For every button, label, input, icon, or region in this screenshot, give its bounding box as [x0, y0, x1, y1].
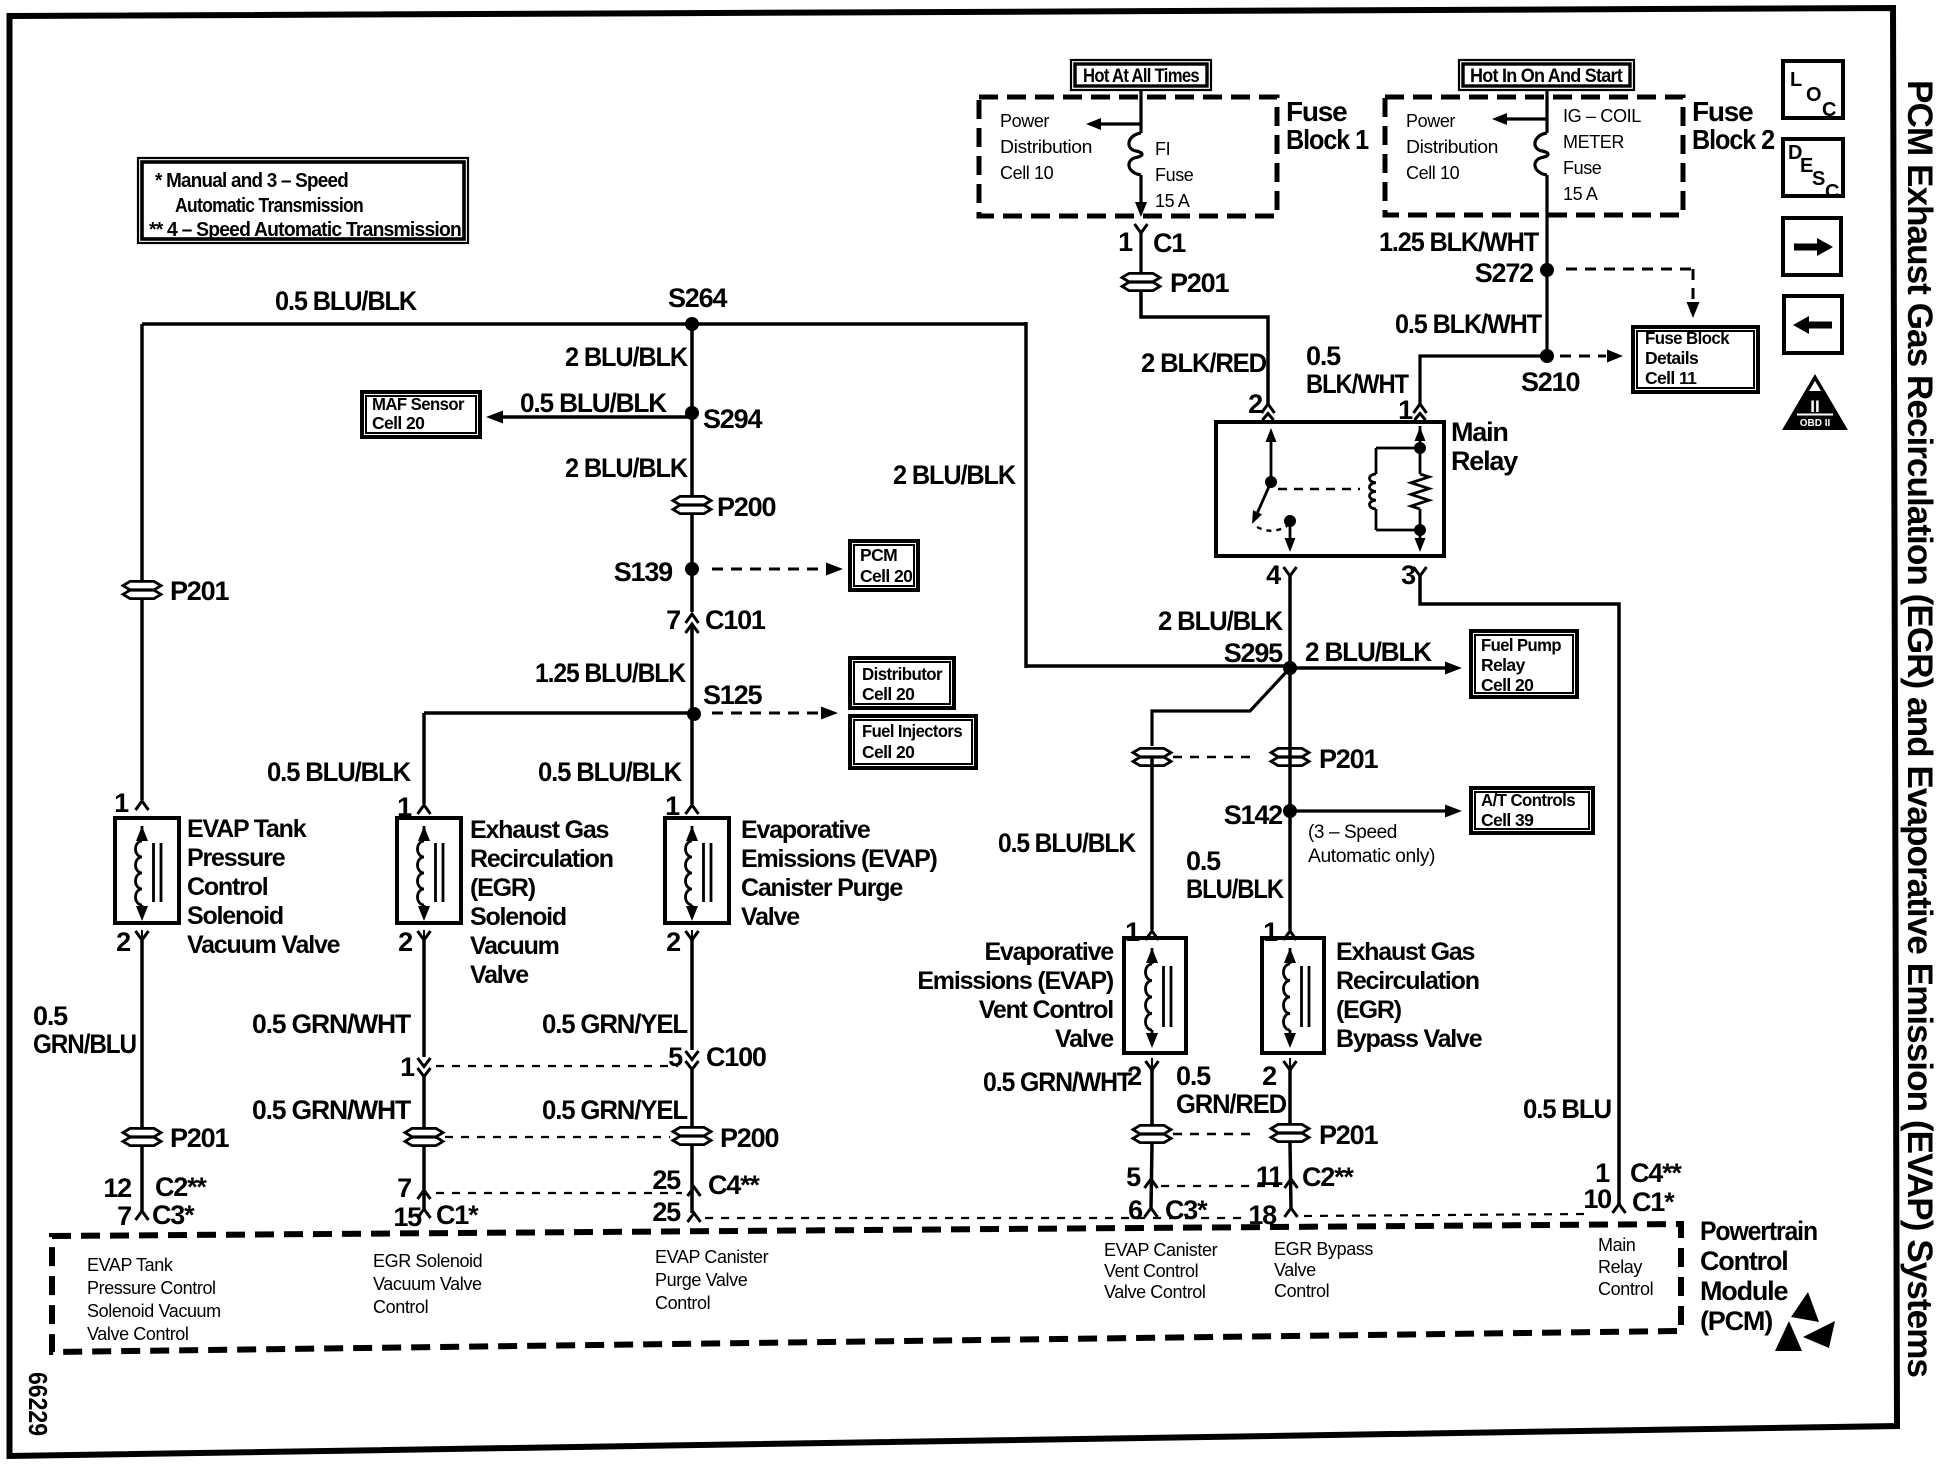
svg-text:Control: Control [1598, 1279, 1653, 1299]
svg-text:0.5 BLK/WHT: 0.5 BLK/WHT [1395, 309, 1543, 339]
svg-text:0.5 GRN/YEL: 0.5 GRN/YEL [542, 1095, 688, 1125]
svg-text:S: S [1812, 168, 1825, 190]
svg-text:BLK/WHT: BLK/WHT [1306, 369, 1409, 399]
svg-text:0.5 BLU/BLK: 0.5 BLU/BLK [538, 757, 683, 787]
svg-text:EVAP Tank: EVAP Tank [187, 815, 307, 843]
svg-text:2 BLK/RED: 2 BLK/RED [1141, 348, 1267, 378]
svg-text:66229: 66229 [23, 1372, 53, 1436]
svg-text:IG – COIL: IG – COIL [1563, 106, 1641, 126]
svg-text:Emissions (EVAP): Emissions (EVAP) [741, 845, 938, 873]
svg-text:Automatic Transmission: Automatic Transmission [175, 195, 363, 217]
svg-text:Canister Purge: Canister Purge [741, 874, 903, 902]
svg-text:2 BLU/BLK: 2 BLU/BLK [565, 342, 689, 372]
svg-text:0.5 GRN/WHT: 0.5 GRN/WHT [983, 1067, 1133, 1097]
svg-text:(EGR): (EGR) [1336, 996, 1402, 1024]
svg-text:Block 2: Block 2 [1692, 124, 1775, 155]
svg-text:Pressure: Pressure [187, 844, 286, 872]
svg-text:1.25 BLK/WHT: 1.25 BLK/WHT [1379, 227, 1540, 257]
svg-text:P201: P201 [1319, 1120, 1378, 1150]
svg-text:A/T Controls: A/T Controls [1481, 790, 1576, 810]
svg-text:Distributor: Distributor [862, 664, 943, 684]
svg-text:S294: S294 [703, 404, 762, 434]
svg-text:1.25 BLU/BLK: 1.25 BLU/BLK [535, 658, 687, 688]
svg-text:Power: Power [1000, 111, 1049, 131]
svg-text:Automatic only): Automatic only) [1308, 846, 1435, 867]
svg-text:Block 1: Block 1 [1286, 124, 1369, 155]
svg-text:Control: Control [1274, 1281, 1329, 1301]
svg-text:7: 7 [666, 605, 680, 635]
svg-text:OBD II: OBD II [1800, 418, 1831, 429]
svg-text:Control: Control [655, 1293, 710, 1313]
svg-text:15 A: 15 A [1155, 191, 1190, 211]
svg-text:EVAP Canister: EVAP Canister [1104, 1240, 1218, 1260]
svg-text:4: 4 [1266, 560, 1281, 590]
svg-text:C4**: C4** [1630, 1158, 1682, 1188]
svg-text:Cell 20: Cell 20 [372, 413, 425, 433]
svg-text:MAF Sensor: MAF Sensor [372, 394, 465, 414]
svg-text:P201: P201 [1170, 268, 1229, 298]
svg-text:Fuel Pump: Fuel Pump [1481, 635, 1561, 655]
svg-text:0.5 BLU/BLK: 0.5 BLU/BLK [275, 286, 418, 316]
svg-text:0.5 BLU: 0.5 BLU [1523, 1094, 1611, 1124]
svg-text:Fuse: Fuse [1155, 165, 1194, 185]
svg-text:S125: S125 [703, 680, 762, 710]
svg-text:2 BLU/BLK: 2 BLU/BLK [1158, 606, 1284, 636]
svg-text:Details: Details [1645, 348, 1699, 368]
svg-text:1: 1 [1263, 917, 1278, 947]
svg-text:S142: S142 [1224, 800, 1282, 830]
svg-text:2: 2 [666, 927, 680, 957]
svg-text:GRN/BLU: GRN/BLU [33, 1029, 136, 1059]
svg-text:Cell 20: Cell 20 [1481, 675, 1534, 695]
svg-text:FI: FI [1155, 139, 1170, 159]
svg-text:EGR Solenoid: EGR Solenoid [373, 1251, 482, 1271]
svg-text:(EGR): (EGR) [470, 874, 536, 902]
svg-text:Pressure Control: Pressure Control [87, 1278, 216, 1298]
svg-text:2 BLU/BLK: 2 BLU/BLK [893, 460, 1017, 490]
svg-text:Main: Main [1598, 1235, 1635, 1255]
svg-text:C3*: C3* [152, 1200, 195, 1230]
svg-text:0.5 GRN/WHT: 0.5 GRN/WHT [252, 1009, 412, 1039]
svg-text:C4**: C4** [708, 1170, 760, 1200]
svg-text:Distribution: Distribution [1000, 137, 1092, 157]
svg-text:Cell 10: Cell 10 [1406, 163, 1460, 183]
svg-text:0.5: 0.5 [33, 1001, 68, 1031]
svg-text:Emissions (EVAP): Emissions (EVAP) [917, 967, 1114, 995]
svg-text:1: 1 [114, 788, 129, 818]
svg-text:O: O [1806, 84, 1821, 106]
svg-text:C101: C101 [705, 605, 766, 635]
svg-text:EGR Bypass: EGR Bypass [1274, 1239, 1373, 1259]
svg-text:Fuel Injectors: Fuel Injectors [862, 721, 963, 741]
svg-text:C2**: C2** [155, 1172, 207, 1202]
svg-text:Cell 20: Cell 20 [862, 684, 915, 704]
svg-text:Solenoid: Solenoid [470, 903, 566, 931]
svg-text:Vacuum: Vacuum [470, 932, 559, 960]
svg-text:P200: P200 [717, 492, 775, 522]
svg-text:C: C [1825, 181, 1839, 203]
svg-text:Valve: Valve [1055, 1025, 1114, 1053]
svg-text:7: 7 [397, 1173, 411, 1203]
svg-text:S139: S139 [614, 557, 673, 587]
svg-text:Exhaust Gas: Exhaust Gas [1336, 938, 1475, 966]
svg-text:S295: S295 [1224, 638, 1283, 668]
svg-text:Vent Control: Vent Control [979, 996, 1113, 1024]
svg-text:3: 3 [1401, 560, 1416, 590]
svg-text:Control: Control [187, 873, 268, 901]
svg-text:(3 – Speed: (3 – Speed [1308, 822, 1397, 843]
svg-text:2 BLU/BLK: 2 BLU/BLK [1305, 637, 1433, 667]
svg-text:5: 5 [1126, 1162, 1141, 1192]
svg-text:Relay: Relay [1481, 655, 1526, 675]
svg-text:Fuse: Fuse [1692, 96, 1753, 127]
svg-text:EVAP Tank: EVAP Tank [87, 1255, 174, 1275]
svg-text:Recirculation: Recirculation [470, 845, 613, 873]
svg-text:BLU/BLK: BLU/BLK [1186, 874, 1284, 904]
svg-text:Hot In On And Start: Hot In On And Start [1470, 66, 1623, 87]
svg-text:11: 11 [1256, 1161, 1283, 1191]
svg-text:P201: P201 [170, 576, 229, 606]
svg-text:Relay: Relay [1598, 1257, 1642, 1277]
svg-text:Evaporative: Evaporative [984, 938, 1114, 966]
svg-text:15 A: 15 A [1563, 184, 1598, 204]
svg-text:Fuse Block: Fuse Block [1645, 328, 1730, 348]
svg-text:2 BLU/BLK: 2 BLU/BLK [565, 453, 689, 483]
svg-text:7: 7 [117, 1201, 131, 1231]
svg-text:Vent Control: Vent Control [1104, 1261, 1198, 1281]
svg-text:Purge Valve: Purge Valve [655, 1270, 748, 1290]
svg-text:0.5 BLU/BLK: 0.5 BLU/BLK [998, 828, 1137, 858]
svg-text:1: 1 [1118, 227, 1133, 257]
svg-text:Power: Power [1406, 111, 1455, 131]
svg-text:10: 10 [1583, 1184, 1611, 1214]
svg-text:Vacuum Valve: Vacuum Valve [373, 1274, 482, 1294]
svg-text:1: 1 [400, 1052, 415, 1082]
svg-text:C100: C100 [706, 1042, 766, 1072]
svg-text:II: II [1810, 397, 1819, 416]
svg-text:2: 2 [398, 927, 412, 957]
svg-text:C: C [1822, 99, 1836, 121]
svg-text:2: 2 [1248, 389, 1262, 419]
svg-text:0.5: 0.5 [1176, 1061, 1211, 1091]
svg-text:Vacuum Valve: Vacuum Valve [187, 931, 341, 959]
svg-text:25: 25 [652, 1165, 681, 1195]
svg-text:Fuse: Fuse [1286, 96, 1347, 127]
svg-text:S210: S210 [1521, 367, 1579, 397]
svg-text:(PCM): (PCM) [1700, 1306, 1772, 1336]
svg-text:P201: P201 [1319, 744, 1378, 774]
svg-text:Evaporative: Evaporative [741, 816, 871, 844]
svg-text:Exhaust Gas: Exhaust Gas [470, 816, 609, 844]
svg-text:12: 12 [103, 1173, 131, 1203]
svg-text:0.5: 0.5 [1306, 341, 1341, 371]
svg-text:Cell 10: Cell 10 [1000, 163, 1054, 183]
svg-text:Fuse: Fuse [1563, 158, 1602, 178]
svg-text:P201: P201 [170, 1123, 229, 1153]
svg-text:C3*: C3* [1165, 1195, 1208, 1225]
svg-text:Main: Main [1451, 417, 1508, 447]
svg-text:0.5 BLU/BLK: 0.5 BLU/BLK [520, 388, 668, 418]
svg-text:Valve Control: Valve Control [87, 1324, 189, 1344]
svg-text:* Manual and 3 – Speed: * Manual and 3 – Speed [155, 170, 348, 192]
svg-text:Bypass Valve: Bypass Valve [1336, 1025, 1483, 1053]
svg-text:25: 25 [652, 1197, 681, 1227]
svg-text:0.5: 0.5 [1186, 846, 1221, 876]
svg-text:1: 1 [1125, 917, 1140, 947]
svg-text:PCM: PCM [860, 545, 897, 565]
svg-text:P200: P200 [720, 1123, 778, 1153]
svg-text:EVAP Canister: EVAP Canister [655, 1247, 769, 1267]
svg-text:Control: Control [373, 1297, 428, 1317]
svg-text:Control: Control [1700, 1246, 1788, 1276]
svg-text:Relay: Relay [1451, 446, 1518, 476]
svg-text:Valve: Valve [741, 903, 800, 931]
svg-text:Module: Module [1700, 1276, 1788, 1306]
svg-text:Valve: Valve [1274, 1260, 1316, 1280]
svg-text:L: L [1790, 69, 1802, 91]
svg-text:Powertrain: Powertrain [1700, 1216, 1817, 1246]
svg-text:C1: C1 [1153, 228, 1186, 258]
svg-text:S264: S264 [668, 283, 727, 313]
svg-text:Valve Control: Valve Control [1104, 1282, 1206, 1302]
svg-text:0.5 GRN/YEL: 0.5 GRN/YEL [542, 1009, 688, 1039]
svg-text:Distribution: Distribution [1406, 137, 1498, 157]
svg-text:C1*: C1* [1632, 1187, 1675, 1217]
svg-text:** 4 – Speed Automatic Transmi: ** 4 – Speed Automatic Transmission [149, 219, 461, 241]
svg-text:2: 2 [116, 927, 130, 957]
svg-text:0.5 GRN/WHT: 0.5 GRN/WHT [252, 1095, 412, 1125]
svg-text:Valve: Valve [470, 961, 529, 989]
svg-text:Cell 20: Cell 20 [862, 742, 915, 762]
svg-text:Hot At All Times: Hot At All Times [1083, 66, 1199, 87]
svg-text:Cell 39: Cell 39 [1481, 810, 1534, 830]
svg-text:5: 5 [668, 1042, 683, 1072]
svg-text:PCM Exhaust Gas Recirculation: PCM Exhaust Gas Recirculation (EGR) and … [1900, 80, 1939, 1378]
svg-text:S272: S272 [1475, 258, 1533, 288]
svg-text:Solenoid: Solenoid [187, 902, 283, 930]
svg-text:0.5 BLU/BLK: 0.5 BLU/BLK [267, 757, 412, 787]
svg-text:Cell 20: Cell 20 [860, 566, 913, 586]
svg-text:Recirculation: Recirculation [1336, 967, 1479, 995]
svg-text:2: 2 [1262, 1061, 1276, 1091]
svg-text:Solenoid Vacuum: Solenoid Vacuum [87, 1301, 221, 1321]
svg-text:6: 6 [1128, 1195, 1143, 1225]
svg-text:METER: METER [1563, 132, 1624, 152]
svg-text:Cell 11: Cell 11 [1645, 368, 1697, 388]
svg-text:C1*: C1* [436, 1200, 479, 1230]
svg-text:GRN/RED: GRN/RED [1176, 1089, 1287, 1119]
svg-text:C2**: C2** [1302, 1162, 1354, 1192]
